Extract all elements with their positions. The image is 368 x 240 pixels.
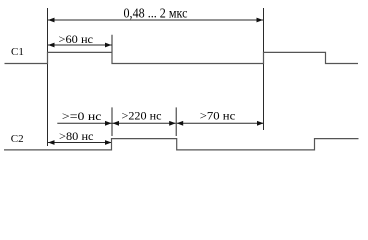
svg-text:>60 нс: >60 нс: [59, 34, 94, 46]
svg-text:С1: С1: [11, 46, 24, 58]
svg-text:С2: С2: [11, 133, 24, 145]
svg-text:0,48 ... 2 мкс: 0,48 ... 2 мкс: [124, 6, 188, 21]
svg-text:>80 нс: >80 нс: [59, 131, 94, 143]
svg-text:>=0 нс: >=0 нс: [62, 111, 102, 123]
svg-text:>70 нс: >70 нс: [200, 111, 236, 123]
svg-text:>220 нс: >220 нс: [122, 111, 162, 123]
